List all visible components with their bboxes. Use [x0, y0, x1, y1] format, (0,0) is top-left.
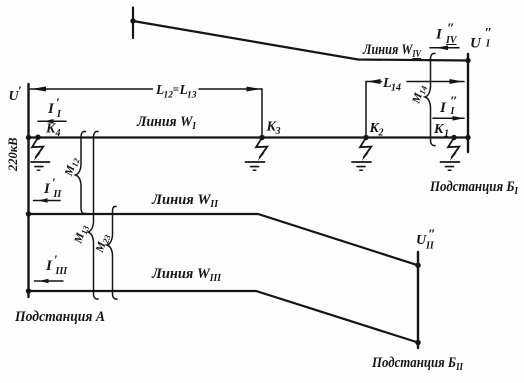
svg-text:′: ′ [54, 252, 58, 267]
wire line W_III [29, 291, 419, 343]
svg-text:I: I [56, 109, 62, 120]
svg-text:IV: IV [445, 35, 458, 46]
node dot bus A / W_III [26, 288, 31, 293]
label I_I' [47, 95, 62, 120]
current arrow I_I'' [433, 117, 464, 119]
node dot K2 [363, 135, 368, 140]
svg-text:II: II [425, 241, 435, 252]
bus Подстанция A (left vertical busbar) [27, 84, 29, 297]
svg-text:M13: M13 [72, 223, 91, 247]
svg-text:Подстанция БII: Подстанция БII [371, 355, 464, 373]
node dot bus Б_I / W_IV [465, 58, 470, 63]
svg-text:3: 3 [275, 126, 281, 137]
wire extension at node K2 [365, 82, 367, 138]
wire extension at node K3 [261, 89, 263, 137]
svg-text:Подстанция А: Подстанция А [14, 309, 105, 325]
dimension line L14 [366, 81, 464, 83]
node dot K4 fault [35, 135, 40, 140]
node dot bus A / W_I [26, 135, 31, 140]
node dot bus Б_II / W_II [415, 263, 421, 269]
svg-text:Линия WIV: Линия WIV [362, 42, 422, 60]
svg-text:U: U [470, 36, 482, 52]
node dot bus Б_II / W_III [415, 340, 421, 346]
label U' [9, 83, 23, 104]
node tap of line W_IV (top-left stub bar) [132, 8, 134, 39]
svg-text:14: 14 [391, 83, 401, 94]
label I_IV'' [435, 22, 458, 47]
label L12 = L13 [155, 82, 197, 101]
label U_II'' [416, 228, 436, 252]
svg-text:M23: M23 [94, 232, 113, 256]
svg-text:2: 2 [378, 128, 384, 139]
fault symbol at K1 (lightning arrow to ground) [441, 138, 460, 171]
current arrow I_II' [34, 200, 61, 202]
svg-text:III: III [55, 266, 69, 277]
brace M13 (coupling W_I - W_III) [88, 131, 98, 299]
svg-text:Подстанция БI: Подстанция БI [429, 179, 519, 197]
svg-text:I: I [45, 258, 53, 274]
svg-text:4: 4 [55, 128, 61, 139]
svg-text:M14: M14 [410, 83, 429, 106]
current arrow I_IV'' [430, 47, 459, 49]
current arrow I_I' [38, 120, 66, 122]
node dot bus Б_I / W_I [465, 135, 470, 140]
label L14 [382, 76, 401, 94]
svg-text:I: I [439, 100, 447, 116]
brace M23 (coupling W_II - W_III) [107, 206, 117, 299]
brace M12 (coupling W_I - W_II) [76, 131, 86, 213]
svg-text:I: I [43, 181, 51, 197]
label K4 [45, 122, 61, 139]
label I_III' [45, 252, 68, 277]
svg-text:M12: M12 [63, 155, 82, 179]
label K3 [266, 120, 281, 138]
fault symbol at K2 (lightning arrow to ground) [352, 138, 371, 171]
svg-text:1: 1 [444, 129, 449, 140]
bus Подстанция Б_I (right vertical busbar) [467, 54, 469, 152]
wire line W_IV [133, 21, 468, 61]
svg-text:II: II [53, 189, 63, 200]
svg-text:Линия WII: Линия WII [151, 192, 219, 210]
fault symbol at K3 (lightning arrow to ground) [246, 138, 268, 171]
svg-text:220кВ: 220кВ [6, 138, 20, 172]
svg-text:=: = [173, 84, 180, 96]
fault symbol at K4 (lightning arrow to ground) [31, 138, 50, 171]
label I_I'' [439, 95, 458, 118]
svg-text:Линия WIII: Линия WIII [151, 266, 222, 284]
node dot W_IV tap [130, 18, 135, 23]
node dot K3 [259, 135, 264, 140]
svg-text:I: I [47, 101, 55, 117]
label U_I'' [470, 26, 492, 52]
wire line W_I [29, 136, 469, 138]
label K2 [369, 121, 384, 139]
svg-text:13: 13 [187, 91, 197, 101]
label I_II' [43, 175, 62, 200]
dimension line L12 = L13 [29, 88, 263, 90]
node dot bus A / W_II [26, 211, 31, 216]
current arrow I_III' [35, 280, 64, 282]
bus Подстанция Б_II (lower right vertical busbar) [417, 252, 419, 348]
svg-text:′: ′ [18, 83, 22, 98]
svg-text:Линия WI: Линия WI [136, 114, 197, 132]
wire line W_II [29, 214, 419, 265]
label K1 [433, 122, 449, 140]
svg-text:I: I [435, 27, 443, 43]
node dot K1 fault [451, 135, 456, 140]
svg-text:′: ′ [52, 175, 56, 190]
svg-text:′: ′ [56, 95, 60, 110]
brace M14 (coupling W_I - W_IV) [425, 53, 435, 145]
